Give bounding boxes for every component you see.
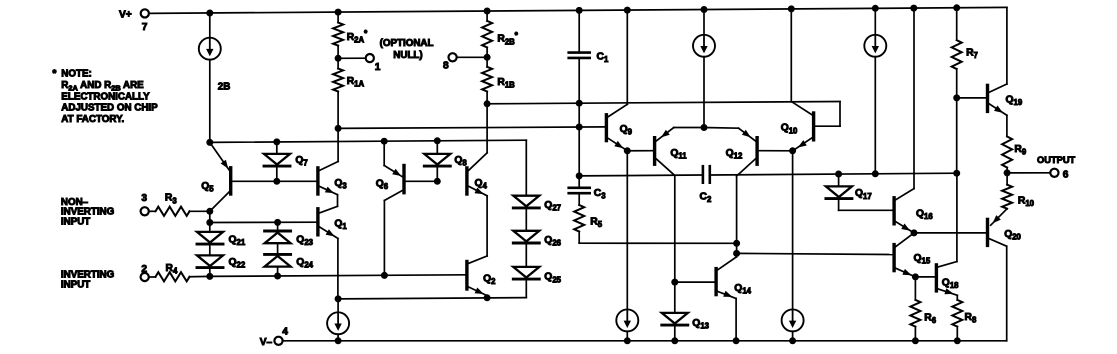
current source right tail xyxy=(782,309,804,340)
transistor Q3 xyxy=(318,128,348,206)
diode Q25 xyxy=(513,243,561,297)
transistor Q10 xyxy=(781,9,814,151)
node null A / pin 1 xyxy=(335,38,434,73)
capacitor C1 xyxy=(569,10,609,187)
svg-text:ELECTRONICALLY: ELECTRONICALLY xyxy=(61,91,150,102)
power terminal V+ pin 7 xyxy=(119,9,149,33)
resistor R7 xyxy=(952,8,978,98)
svg-text:V+: V+ xyxy=(119,10,132,21)
svg-text:6: 6 xyxy=(1063,169,1069,180)
diode Q22 xyxy=(197,244,246,276)
wire pin2 bus xyxy=(206,272,465,280)
current source 2B xyxy=(199,13,231,142)
node 2B bus xyxy=(206,137,526,146)
wire R5 to Q12 collector xyxy=(579,240,740,247)
svg-text:4: 4 xyxy=(282,327,288,338)
transistor Q12 xyxy=(704,128,793,257)
node null B / pin 8 xyxy=(443,53,491,71)
transistor Q9 xyxy=(606,10,632,151)
diode Q23 xyxy=(265,222,314,247)
svg-text:3: 3 xyxy=(141,193,147,204)
wire Q3 collector to Q9 base xyxy=(335,125,605,132)
transistor Q14 xyxy=(716,257,752,341)
resistor R5 xyxy=(574,205,603,243)
input terminal pin 3 xyxy=(61,193,149,228)
current source input tail xyxy=(327,299,349,341)
wire Q4 collector to Q10 base xyxy=(484,100,840,126)
power terminal V- pin 4 xyxy=(260,327,289,349)
resistor R3 xyxy=(149,193,210,216)
wire top rail V+ xyxy=(149,4,1007,84)
node Q9 emitter xyxy=(624,147,653,154)
svg-text:7: 7 xyxy=(142,22,148,33)
diode Q27 xyxy=(513,140,561,212)
node C1 junctions xyxy=(576,100,583,180)
svg-text:*: * xyxy=(53,68,57,79)
transistor Q18 xyxy=(936,173,959,300)
diode Q26 xyxy=(513,208,561,248)
resistor R4 xyxy=(149,263,210,281)
current source bias xyxy=(864,8,886,174)
diode Q24 xyxy=(265,243,314,276)
svg-text:2: 2 xyxy=(141,264,147,275)
capacitor C3 xyxy=(569,188,607,205)
resistor R1A xyxy=(333,58,364,128)
wire tail bus xyxy=(335,294,527,302)
svg-text:1: 1 xyxy=(375,62,381,73)
diode Q13 xyxy=(662,282,710,341)
resistor R1B xyxy=(482,57,515,104)
diode Q7 xyxy=(264,142,308,185)
svg-text:2B: 2B xyxy=(218,82,231,93)
current source center xyxy=(693,10,715,132)
transistor Q16 xyxy=(894,8,933,233)
note text xyxy=(53,68,159,125)
diode Q21 xyxy=(197,223,246,247)
resistor R9 xyxy=(1002,137,1027,173)
svg-text:8: 8 xyxy=(443,61,449,72)
transistor Q1 xyxy=(210,206,348,299)
diode Q17 xyxy=(826,174,893,210)
svg-text:NULL): NULL) xyxy=(393,50,422,61)
transistor Q5 xyxy=(201,142,316,211)
transistor Q15 xyxy=(894,245,931,277)
transistor Q20 xyxy=(988,219,1022,340)
node Q12 base xyxy=(789,147,796,310)
node Q19 base xyxy=(953,94,986,173)
capacitor C2 xyxy=(579,166,957,204)
transistor Q6 xyxy=(376,141,438,275)
svg-text:NOTE:: NOTE: xyxy=(61,68,91,79)
resistor R2A xyxy=(333,12,368,58)
svg-text:ADJUSTED ON CHIP: ADJUSTED ON CHIP xyxy=(61,103,158,114)
node Q15 emitter xyxy=(912,273,935,300)
current source left tail xyxy=(616,151,638,341)
svg-text:(OPTIONAL: (OPTIONAL xyxy=(380,38,434,49)
output terminal pin 6 xyxy=(1004,155,1076,180)
transistor Q4 xyxy=(467,104,488,256)
resistor R2B xyxy=(482,11,519,57)
resistor R6 xyxy=(910,300,936,341)
input terminal pin 2 xyxy=(61,264,149,291)
wire bottom rail V- xyxy=(283,337,1007,344)
transistor Q19 xyxy=(988,84,1023,137)
svg-text:INPUT: INPUT xyxy=(61,217,90,228)
node Q5 collector junction xyxy=(206,208,213,226)
node Q20 base xyxy=(896,229,986,246)
node comp wire junctions xyxy=(835,170,960,178)
resistor R8 xyxy=(952,300,977,341)
svg-text:V–: V– xyxy=(260,337,273,348)
svg-text:AT FACTORY.: AT FACTORY. xyxy=(61,114,124,125)
node Q14 base junction xyxy=(671,250,892,286)
svg-text:INPUT: INPUT xyxy=(61,280,90,291)
diode Q8 xyxy=(424,141,467,185)
resistor R10 xyxy=(991,173,1035,225)
transistor Q11 xyxy=(655,128,704,283)
transistor Q2 xyxy=(467,256,496,298)
svg-text:OUTPUT: OUTPUT xyxy=(1037,155,1076,165)
